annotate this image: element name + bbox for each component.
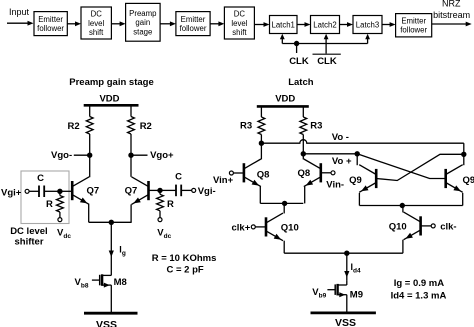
power VSS rail (preamp) [84,312,138,315]
wire CLK horizontal line [282,43,367,45]
wire Q9 left collector to Vo+ [356,154,358,165]
DC level shifter box [21,171,69,224]
terminal Vdc left [58,218,62,222]
svg-text:Vin-: Vin- [326,179,344,190]
wire Q7 left emitter down [88,204,90,222]
svg-text:Q7: Q7 [125,185,138,196]
svg-text:level: level [88,19,104,28]
svg-text:follower: follower [400,26,427,35]
wire clk arrow to Latch1 [281,39,283,44]
svg-text:R3: R3 [310,121,322,132]
svg-text:Latch3: Latch3 [356,20,379,29]
resistor R3 left [258,117,265,135]
svg-text:Ig = 0.9 mA: Ig = 0.9 mA [394,278,445,289]
wire Q9 left emitter [358,193,360,206]
transistor Q8 right [319,163,322,182]
svg-text:DC: DC [234,10,246,19]
block: DC level shift 1 [81,7,111,39]
svg-text:Vb9: Vb9 [312,287,326,300]
terminal Vgi- [192,188,196,192]
svg-text:shifter: shifter [15,236,44,247]
wire Vgo- stub [74,154,90,156]
svg-text:Vo -: Vo - [332,132,349,143]
wire Q10 right collector [402,206,404,213]
wire Vo- line with hop [261,140,463,143]
svg-text:Q9: Q9 [349,175,362,186]
wire R3 right to node [302,135,304,154]
svg-text:Ig: Ig [119,245,126,258]
junction Q9 tail [400,203,404,207]
junction Vo- / Q9 right collector [462,152,466,156]
block: emitter follower 1 [34,12,67,36]
wire cap to Vgi- terminal [181,189,192,191]
wire arrow [340,24,348,26]
wire clk arrow to Latch2 [325,39,327,44]
wire node to R top [59,191,61,195]
transistor M8 (NMOS) [92,271,111,314]
svg-text:Q7: Q7 [87,185,100,196]
junction base right Q7 [158,188,162,192]
svg-text:Vb8: Vb8 [75,277,89,290]
svg-text:Emitter: Emitter [38,15,63,24]
svg-text:C: C [37,173,44,184]
wire Q8 left collector [260,143,262,159]
block: Latch1 [270,16,298,34]
wire Q8 right base [321,172,331,174]
wire arrow [111,23,120,25]
svg-text:Vgo+: Vgo+ [150,150,174,161]
svg-text:stage: stage [133,27,152,36]
terminal Vin- [331,171,335,175]
svg-text:Id4 = 1.3 mA: Id4 = 1.3 mA [391,290,447,301]
wire base wire to Q7 left [60,190,72,192]
DC level shifter caption [10,226,48,247]
transistor M9 (NMOS) [327,280,346,313]
svg-text:Emitter: Emitter [401,16,426,25]
resistor R2 right [128,117,135,135]
junction Vgo- [88,153,92,157]
wire Q7 right collector up [130,155,132,177]
svg-text:shift: shift [232,28,247,37]
block: emitter follower 2 [176,12,210,36]
resistor R right shifter [157,194,164,211]
svg-text:M9: M9 [350,290,363,301]
svg-text:shift: shift [89,28,104,37]
junction Vgo+ [129,153,133,157]
block: DC level shift 2 [224,7,254,39]
svg-text:gain: gain [135,18,150,27]
svg-text:VSS: VSS [96,319,117,327]
power VSS rail (latch) [311,311,376,314]
transistor Q9 right [444,169,447,188]
svg-text:C: C [175,171,182,182]
junction CLK [294,41,298,45]
junction Vo- node [259,141,263,145]
junction Vo+ / Q9 collector [355,152,359,156]
wire Vgo+ stub [131,154,148,156]
resistor R3 right [300,117,307,135]
svg-text:CLK: CLK [317,56,337,67]
terminal Vin+ [229,171,233,175]
svg-text:M8: M8 [114,277,127,288]
svg-text:Q8: Q8 [298,168,311,179]
node NRZ bitstream label [433,0,470,20]
transistor Q7 left [71,181,74,200]
junction base left Q7 [58,189,62,193]
wire CLK stub [296,44,298,54]
wire Q9 emitter rail [359,205,462,207]
svg-text:R2: R2 [140,121,152,132]
transistor Q10 right [419,216,422,235]
svg-text:Preamp: Preamp [129,9,157,18]
wire Q7 left collector up [89,155,91,177]
resistor R2 left [86,117,93,135]
wire Q9 right emitter [462,193,464,206]
arrow Id4 [344,271,349,278]
svg-text:DC: DC [91,10,103,19]
svg-text:Q9: Q9 [463,175,474,186]
svg-text:VSS: VSS [335,317,356,327]
wire output arrow [432,23,467,25]
svg-text:R = 10 KOhms: R = 10 KOhms [152,253,217,264]
transistor Q7 right [147,181,150,200]
svg-text:Latch1: Latch1 [271,20,294,29]
svg-text:Q10: Q10 [281,222,299,233]
wire clk arrow to Latch3 [367,39,369,44]
wire Vin+ base [233,172,244,174]
resistor R left shifter [57,196,64,213]
node CLKbar label (overline) [313,54,341,67]
block: emitter follower 3 [396,14,432,37]
svg-text:Emitter: Emitter [181,15,206,24]
wire arrow [382,24,390,26]
wire VDD to R3 left [260,106,262,117]
terminal clk+ [251,225,255,229]
wire arrow [297,24,305,26]
junction tail latch [345,251,349,255]
wire Q9 left base cross-couple [376,154,464,180]
svg-text:R3: R3 [240,121,252,132]
wire node to cap right [160,189,176,191]
power VDD rail (latch) [257,105,309,108]
svg-text:Vgo-: Vgo- [51,150,72,161]
wire R right to Vdc [159,211,161,218]
wire Vo+ line [303,153,357,155]
wire Q7 right emitter down [130,204,132,222]
wire CLKbar stub [325,44,327,54]
junction Q8 tail [282,201,286,205]
wire Q10 right emitter [402,240,404,254]
wire Q10 right base [421,225,432,227]
wire Vgi+ to cap [29,190,39,192]
svg-text:R: R [46,199,53,210]
wire tail current Ig [110,222,112,270]
svg-text:Input: Input [9,7,30,17]
wire R2 left to Vgo- node [89,134,91,155]
terminal Vdc right [158,218,162,222]
terminal Vgi+ [25,189,29,193]
wire arrow [210,23,219,25]
svg-text:Q8: Q8 [257,170,270,181]
svg-text:Preamp gain stage: Preamp gain stage [69,77,153,88]
svg-text:clk+: clk+ [232,222,251,233]
svg-text:bitstream: bitstream [433,10,470,20]
wire clk+ base [255,226,266,228]
svg-text:R: R [167,199,174,210]
svg-text:Id4: Id4 [351,262,361,275]
wire R to Vdc terminal [59,212,61,218]
wire input arrow [7,22,28,24]
svg-text:clk-: clk- [440,222,456,233]
block: Latch3 [353,16,382,34]
svg-text:R2: R2 [68,121,80,132]
terminal clk- [431,224,435,228]
svg-text:Latch: Latch [288,77,314,88]
arrow Ig [109,251,114,258]
svg-text:NRZ: NRZ [442,0,461,8]
wire Q9 right collector to Vo- [463,143,465,165]
wire Q10 rail left [284,252,347,254]
capacitor C left shifter [39,186,44,198]
junction tail preamp [109,220,113,224]
wire Q10 left emitter [283,241,285,254]
wire Id4 [346,253,348,280]
wire Q10 left collector [283,203,285,213]
svg-text:Vdc: Vdc [57,227,71,240]
power VDD rail (preamp) [84,104,139,107]
svg-text:Vin+: Vin+ [213,175,234,186]
wire Q8 right emitter [304,187,306,204]
svg-text:VDD: VDD [99,93,119,104]
wire arrow [254,24,264,26]
transistor Q9 left [375,169,378,188]
svg-text:Vgi+: Vgi+ [1,188,22,199]
wire Q10 rail right [347,252,403,254]
wire cross-couple Vo+ to Q9 right base [357,154,446,179]
block: preamp gain stage block [126,3,161,41]
svg-text:CLK: CLK [289,56,309,67]
block: Latch2 [311,16,340,34]
svg-text:VDD: VDD [275,93,295,104]
wire Q8 right collector [302,154,304,160]
svg-text:Vgi-: Vgi- [198,186,216,197]
wire Q8 emitter rail [260,202,303,204]
svg-text:follower: follower [37,24,64,33]
wire Q7 right base [149,189,161,191]
junction Vo+ node [301,152,305,156]
svg-text:level: level [231,19,247,28]
svg-text:Latch2: Latch2 [313,20,336,29]
wire arrow [160,23,170,25]
wire cap to base node [44,190,60,192]
wire VDD to R2 right [130,105,132,116]
wire node to R right [159,190,161,194]
wire VDD to R2 left [89,105,91,116]
wire R2 right to Vgo+ node [130,134,132,155]
wire Q8 left emitter [259,187,261,204]
transistor Q8 left [243,163,246,182]
svg-text:follower: follower [180,24,207,33]
capacitor C right shifter [176,185,181,197]
svg-text:Vdc: Vdc [157,227,171,240]
transistor Q10 left [265,217,268,236]
wire R3 left to node [260,135,262,144]
svg-text:Q10: Q10 [389,222,407,233]
wire VDD to R3 right [302,106,304,117]
wire arrow [67,23,75,25]
wire emitter rail preamp [89,221,132,223]
svg-text:Vo +: Vo + [332,156,352,167]
svg-text:C = 2 pF: C = 2 pF [167,265,204,276]
